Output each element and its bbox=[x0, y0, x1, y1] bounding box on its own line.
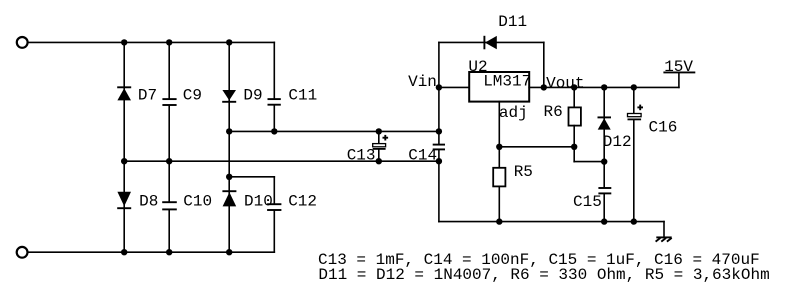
wire Vout rail bbox=[529, 86, 679, 88]
junction R6 bottom bbox=[571, 144, 577, 150]
capacitor C12 bbox=[267, 204, 281, 210]
diode D8 bbox=[117, 192, 131, 208]
junction C14 bottom bbox=[436, 158, 442, 164]
svg-text:D10: D10 bbox=[244, 193, 273, 211]
svg-text:C16: C16 bbox=[649, 118, 678, 136]
svg-text:C11: C11 bbox=[288, 86, 317, 104]
capacitor C11 bbox=[268, 99, 281, 105]
wire ground drop bbox=[663, 222, 665, 238]
junction C14 top bbox=[436, 128, 442, 134]
capacitor C15 bbox=[598, 188, 611, 193]
node Vin bbox=[436, 84, 442, 90]
svg-text:adj: adj bbox=[499, 104, 528, 122]
capacitor C13 bbox=[373, 131, 388, 161]
wire C11 branch bbox=[273, 42, 275, 131]
node 15V bar bbox=[663, 71, 695, 73]
junction D8 lower rail bbox=[121, 158, 127, 164]
wire R5 bottom lead bbox=[498, 186, 500, 221]
junction C10 bottom rail bbox=[166, 249, 172, 255]
junction C10 lower rail bbox=[166, 158, 172, 164]
wire mid rail lower bbox=[124, 160, 439, 162]
resistor R5 bbox=[493, 168, 505, 187]
diode D7 bbox=[117, 87, 131, 100]
junction D7 top rail bbox=[121, 39, 127, 45]
svg-text:C13: C13 bbox=[347, 146, 376, 164]
svg-text:D7: D7 bbox=[138, 86, 157, 104]
svg-text:C10: C10 bbox=[183, 193, 212, 211]
capacitor C14 + ground return wire bbox=[433, 87, 445, 221]
junction C11 mid rail bbox=[271, 128, 277, 134]
regulator U2 LM317 body bbox=[469, 72, 529, 102]
wire R6 bottom jog bbox=[574, 126, 604, 162]
wire D11 top branch bbox=[439, 42, 544, 87]
junction D8 bottom rail bbox=[121, 249, 127, 255]
wire D7/D8 branch bbox=[123, 42, 125, 252]
diode D9 bbox=[222, 90, 236, 102]
svg-text:C12: C12 bbox=[288, 193, 317, 211]
svg-text:D11: D11 bbox=[498, 13, 527, 31]
wire C12 branch bbox=[229, 177, 274, 252]
svg-text:LM317: LM317 bbox=[483, 73, 531, 91]
capacitor C10 bbox=[162, 202, 177, 209]
node Vout (D11 leg) bbox=[541, 84, 547, 90]
svg-text:C14: C14 bbox=[408, 146, 437, 164]
wire D12/C15 branch bbox=[603, 87, 605, 221]
wire D9/D10 branch bbox=[228, 42, 230, 252]
svg-text:R5: R5 bbox=[514, 163, 533, 181]
svg-text:C9: C9 bbox=[183, 86, 202, 104]
junction D9 top rail bbox=[226, 39, 232, 45]
svg-text:D9: D9 bbox=[243, 86, 262, 104]
wire bottom-right ground rail bbox=[439, 221, 664, 223]
junction D12 top bbox=[601, 84, 607, 90]
junction R6 top bbox=[571, 84, 577, 90]
junction C16 ground rail bbox=[631, 218, 637, 224]
junction jog to D12/C15 bbox=[601, 158, 607, 164]
svg-text:Vout: Vout bbox=[546, 75, 584, 93]
diode D12 bbox=[598, 117, 612, 129]
resistor R6 bbox=[569, 107, 581, 125]
terminal top input bbox=[17, 37, 28, 48]
diode D11 bbox=[484, 36, 496, 50]
wire bottom-left rail bbox=[29, 251, 275, 253]
svg-text:15V: 15V bbox=[664, 58, 693, 76]
junction C15 ground rail bbox=[601, 218, 607, 224]
wire Vin pin bbox=[439, 86, 469, 88]
wire R6 top lead bbox=[573, 87, 575, 107]
svg-text:Vin: Vin bbox=[408, 73, 437, 91]
node adj bbox=[496, 144, 502, 150]
wire 15V riser bbox=[678, 72, 680, 87]
svg-text:D8: D8 bbox=[139, 193, 158, 211]
junction R5 ground rail bbox=[496, 218, 502, 224]
svg-text:C15: C15 bbox=[573, 193, 602, 211]
wire C9/C10 branch bbox=[168, 42, 170, 252]
junction C13 top bbox=[376, 128, 382, 134]
capacitor C16 bbox=[628, 87, 644, 221]
diode D10 bbox=[222, 191, 236, 206]
svg-text:D12: D12 bbox=[603, 133, 632, 151]
wire adj horizontal bbox=[499, 146, 574, 148]
wire top rail bbox=[29, 41, 275, 43]
terminal bottom input bbox=[17, 247, 28, 258]
junction D9 mid rail bbox=[226, 128, 232, 134]
junction C9 top rail bbox=[166, 39, 172, 45]
junction D10 / C12 branch bbox=[226, 174, 232, 180]
capacitor C9 bbox=[162, 99, 176, 105]
svg-text:D11 = D12 = 1N4007, R6 = 330 O: D11 = D12 = 1N4007, R6 = 330 Ohm, R5 = 3… bbox=[318, 266, 769, 284]
ground symbol bbox=[656, 237, 672, 241]
wire mid rail upper bbox=[229, 130, 439, 132]
wire adj pin bbox=[498, 102, 500, 168]
junction C13 bottom bbox=[376, 158, 382, 164]
svg-text:R6: R6 bbox=[544, 103, 563, 121]
junction D10 bottom rail bbox=[226, 249, 232, 255]
junction C16 top bbox=[631, 84, 637, 90]
